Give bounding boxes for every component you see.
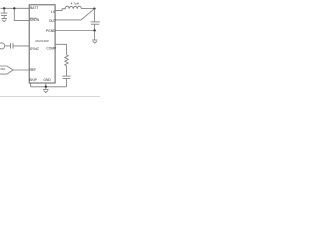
capacitor C4 compensation (62, 76, 70, 87)
pin SHDN overline (30, 17, 37, 19)
node battery/C1 junction (3, 7, 5, 9)
wire PGND pin to output cap (55, 30, 95, 32)
node PGND junction (93, 29, 95, 31)
capacitor C3 sync coupling (11, 43, 13, 49)
svg-text:REF: REF (1, 68, 6, 71)
svg-text:SYNC: SYNC (30, 47, 40, 51)
wire COMP pin (55, 44, 66, 55)
wire ground bus (31, 86, 67, 88)
capacitor C2 output (91, 22, 101, 31)
node GND junction (45, 86, 47, 88)
wire SKIP pin down (30, 83, 32, 87)
svg-text:OUT: OUT (49, 19, 56, 23)
resistor R1 compensation (65, 55, 68, 66)
svg-text:PGND: PGND (46, 29, 56, 33)
node output junction (93, 7, 95, 9)
wire flag to REF pin (13, 69, 29, 71)
clock source SYNC (0, 43, 5, 49)
wire battery top rail to BATT pin (1, 7, 30, 9)
svg-text:SKIP: SKIP (29, 78, 37, 82)
svg-text:4.7µH: 4.7µH (71, 2, 79, 6)
wire C3 to SYNC pin (13, 45, 29, 47)
wire faint page rule bottom (0, 96, 100, 98)
node SHDN tap junction (13, 7, 15, 9)
svg-text:COMP: COMP (46, 46, 57, 50)
wire OUT pin with diagonal to output node (55, 9, 95, 20)
wire inductor to output node (81, 8, 94, 10)
svg-text:MAX1920: MAX1920 (35, 39, 49, 43)
wire GND pin down (45, 83, 47, 87)
ground input cap (1, 19, 7, 22)
wire SHDN connection (14, 8, 29, 20)
wire source to C3 (5, 45, 11, 47)
svg-text:BATT: BATT (30, 6, 38, 10)
ground main (43, 87, 49, 93)
wire LX pin to inductor (55, 9, 62, 11)
inductor L1 4.7uH (62, 6, 81, 9)
svg-text:REF: REF (30, 68, 37, 72)
ground output (92, 31, 97, 44)
svg-text:SHDN: SHDN (30, 18, 40, 22)
wire output node down (94, 9, 96, 22)
svg-text:GND: GND (43, 78, 51, 82)
op-amp U1 MAX1920 IC body (29, 5, 55, 83)
capacitor C1 input bypass (1, 8, 8, 18)
wire resistor to C4 (66, 66, 68, 76)
node REF flag (0, 66, 13, 74)
